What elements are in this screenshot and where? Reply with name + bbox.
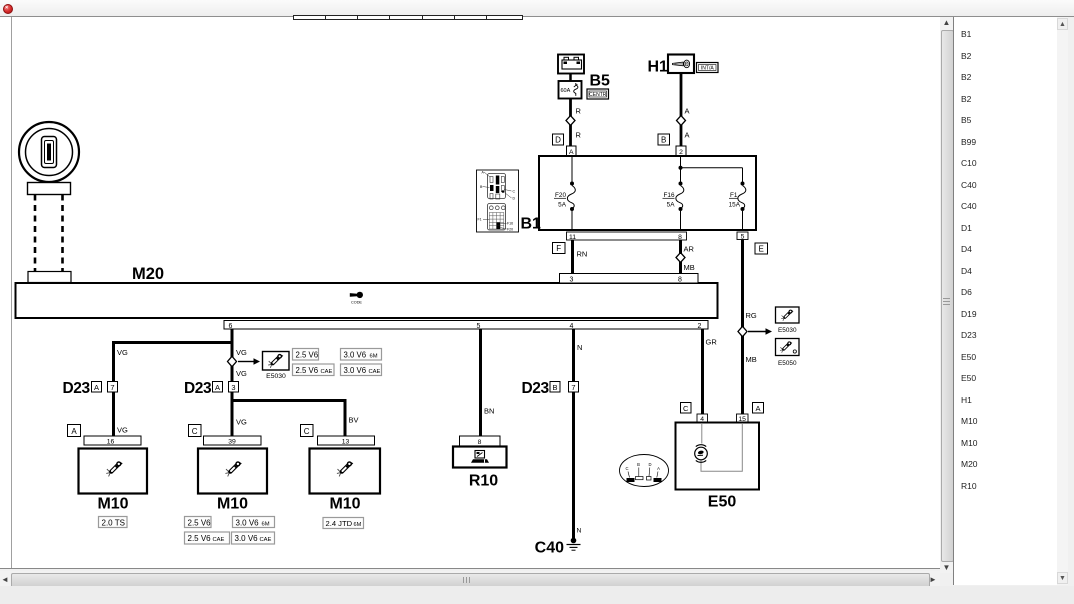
ignition key switch — [19, 122, 79, 195]
svg-text:3.0 V6: 3.0 V6 — [235, 534, 259, 543]
earth point E5030 (mid) — [263, 352, 290, 381]
svg-text:2.0 TS: 2.0 TS — [102, 518, 125, 527]
svg-text:AR: AR — [684, 245, 695, 254]
svg-text:CENTR: CENTR — [589, 92, 607, 98]
connector letter A (M10 left) — [68, 425, 81, 437]
svg-text:A: A — [569, 149, 574, 156]
wire BV branch to M10 13 — [232, 401, 345, 437]
svg-text:D: D — [555, 136, 561, 145]
variant tag 2.5 V6 — [293, 349, 319, 361]
svg-text:BV: BV — [349, 416, 359, 425]
wire R from fuse B5 to B1 pin A — [569, 99, 572, 147]
wire GR from M20 pin 2 to E50 — [701, 329, 704, 414]
variant tag 2.0 TS — [99, 517, 128, 528]
immobilizer aerial E50 — [676, 423, 760, 511]
svg-text:D: D — [513, 197, 516, 201]
connector letter D — [553, 134, 564, 145]
svg-text:2: 2 — [698, 323, 702, 330]
wire ignition switch to M20 (dashed) — [28, 195, 71, 283]
svg-text:N: N — [577, 528, 582, 535]
connector letter A — [92, 382, 102, 393]
M10 pin strip 16 — [84, 436, 141, 446]
svg-text:RN: RN — [577, 250, 588, 259]
svg-text:2.5 V6: 2.5 V6 — [188, 534, 212, 543]
svg-text:2.5 V6: 2.5 V6 — [296, 351, 319, 360]
svg-text:5A: 5A — [667, 202, 676, 209]
svg-text:VG: VG — [117, 348, 128, 357]
E50 connector face inset — [620, 455, 669, 487]
svg-text:7: 7 — [110, 383, 114, 392]
svg-text:6M: 6M — [262, 521, 270, 527]
wire A from H1 to B1 pin 2 — [680, 73, 683, 146]
svg-text:D23: D23 — [522, 380, 550, 397]
svg-text:A: A — [657, 466, 660, 471]
svg-text:16: 16 — [107, 439, 115, 446]
svg-text:VG: VG — [236, 348, 247, 357]
svg-text:2.4 JTD: 2.4 JTD — [326, 519, 353, 528]
splice diamond on wire R — [566, 116, 575, 126]
pin 7 box — [108, 382, 118, 393]
svg-text:MB: MB — [684, 263, 695, 272]
svg-text:E5030: E5030 — [778, 327, 797, 334]
splice diamond on wire AR/MB — [676, 253, 685, 263]
svg-text:B: B — [552, 383, 557, 392]
svg-text:D: D — [648, 462, 651, 467]
R10 pin strip 8 — [460, 436, 501, 446]
B1 location inset — [477, 170, 519, 232]
svg-text:11: 11 — [569, 234, 576, 241]
wire RN from B1 pin 11 to M20 pin 3 — [571, 240, 574, 274]
connector letter C (M10 right) — [301, 425, 314, 437]
svg-text:M10: M10 — [217, 496, 248, 513]
svg-text:A: A — [482, 171, 485, 175]
svg-text:5A: 5A — [558, 202, 567, 209]
middle vertical scrollbar — [940, 17, 953, 573]
variant tag 2.5 V6 — [185, 517, 212, 528]
injection ECU M10 (third) — [310, 449, 381, 513]
svg-text:5: 5 — [477, 323, 481, 330]
svg-text:6M: 6M — [354, 522, 362, 528]
svg-text:M10: M10 — [97, 496, 128, 513]
connector letter E — [755, 243, 768, 254]
pin 7 box — [569, 382, 579, 393]
connector letter F — [553, 243, 566, 254]
svg-text:E5030: E5030 — [266, 373, 286, 380]
svg-text:C: C — [683, 404, 689, 413]
svg-text:15A: 15A — [729, 202, 741, 209]
connector letter B — [658, 134, 670, 145]
svg-text:VG: VG — [117, 426, 128, 435]
svg-text:39: 39 — [228, 439, 236, 446]
svg-text:M20: M20 — [132, 265, 164, 283]
svg-text:H1: H1 — [648, 59, 669, 76]
svg-text:R: R — [576, 131, 582, 140]
B1 bottom connector strip pins 11,8 — [567, 232, 687, 241]
svg-text:B: B — [637, 462, 640, 467]
variant tag 3.0 V6 CAE — [341, 364, 382, 376]
connector letter C (M10 mid) — [189, 425, 202, 437]
svg-text:F16: F16 — [507, 222, 513, 226]
svg-text:F: F — [556, 244, 561, 253]
fuse B5 60A — [559, 81, 582, 99]
svg-text:3.0 V6: 3.0 V6 — [236, 518, 260, 527]
pin 4 box — [697, 414, 708, 423]
svg-text:INT/A: INT/A — [701, 66, 714, 72]
svg-text:C: C — [304, 427, 310, 436]
right list panel — [953, 17, 1057, 585]
CODE key icon inside M20 — [350, 292, 363, 305]
arrow to E5030 — [238, 358, 260, 365]
injection ECU M10 (second) — [198, 449, 267, 513]
svg-text:3.0 V6: 3.0 V6 — [344, 351, 367, 360]
svg-text:CAE: CAE — [260, 537, 272, 543]
B1 pin 5 box — [737, 232, 748, 241]
svg-text:13: 13 — [342, 439, 350, 446]
svg-text:GR: GR — [706, 338, 718, 347]
earth C40 — [567, 538, 581, 551]
svg-text:A: A — [94, 383, 99, 392]
variant tag 3.0 V6 6M — [233, 517, 275, 528]
splice diamond on wire A — [677, 116, 686, 126]
variant tag 3.0 V6 CAE — [232, 532, 275, 544]
svg-text:3: 3 — [570, 277, 574, 284]
svg-text:7: 7 — [571, 383, 575, 392]
variant tag 3.0 V6 6M — [341, 349, 382, 361]
svg-text:E50: E50 — [708, 494, 737, 511]
svg-text:8: 8 — [678, 277, 682, 284]
svg-text:60A: 60A — [561, 88, 571, 94]
fuse F16 5A — [663, 157, 684, 229]
svg-text:3.0 V6: 3.0 V6 — [344, 366, 367, 375]
wire VG from M20 pin 6 — [231, 329, 234, 436]
fuse F1 15A — [729, 168, 746, 229]
svg-text:BN: BN — [484, 407, 494, 416]
injection ECU M10 (first) — [79, 449, 148, 513]
pin A box — [567, 146, 577, 156]
diagnostic socket R10 — [453, 447, 507, 490]
arrow to E5030/E5050 — [748, 328, 772, 335]
variant tag 2.5 V6 CAE — [185, 532, 230, 544]
svg-text:A: A — [71, 427, 77, 436]
wire N from M20 pin 4 to earth C40 — [572, 329, 575, 539]
svg-text:A: A — [215, 383, 220, 392]
svg-text:RG: RG — [746, 311, 757, 320]
M10 pin strip 39 — [204, 436, 262, 446]
svg-text:CAE: CAE — [369, 369, 381, 375]
svg-text:VG: VG — [236, 369, 247, 378]
M10 pin strip 13 — [318, 436, 375, 446]
fuse F20 5A — [554, 157, 575, 229]
svg-text:MB: MB — [746, 355, 757, 364]
svg-text:3: 3 — [231, 383, 235, 392]
svg-text:4: 4 — [570, 323, 574, 330]
CENTR tag — [587, 89, 609, 99]
top toolbar — [0, 0, 1074, 17]
variant tag 2.4 JTD 6M — [323, 518, 364, 529]
connector letter A — [213, 382, 223, 393]
svg-text:8: 8 — [678, 234, 682, 241]
M20 bottom connector strip pins 6,5,4,2 — [224, 321, 708, 330]
horizontal scrollbar — [0, 571, 940, 588]
svg-text:5: 5 — [741, 234, 745, 241]
svg-text:M10: M10 — [329, 496, 360, 513]
INT/A tag — [697, 63, 719, 73]
wire AR/MB from B1 pin 8 to M20 pin 8 — [679, 240, 682, 274]
svg-text:B1: B1 — [521, 216, 542, 233]
ignition contact H1 — [668, 55, 694, 74]
svg-text:CAE: CAE — [321, 369, 333, 375]
inner page edge line — [11, 17, 12, 568]
svg-text:E: E — [759, 245, 764, 254]
earth point E5030 (right) — [776, 307, 800, 334]
svg-text:B5: B5 — [590, 73, 611, 90]
svg-text:B: B — [661, 136, 666, 145]
svg-text:6: 6 — [229, 323, 233, 330]
pin 3 box — [229, 382, 239, 393]
internal wire to F1 — [681, 167, 743, 169]
svg-text:F1: F1 — [478, 218, 482, 222]
bottom status bar — [0, 586, 1074, 604]
svg-text:N: N — [577, 343, 582, 352]
svg-text:A: A — [755, 404, 760, 413]
connector letter B — [550, 382, 560, 393]
wire VG branch to D23 pin A7 — [114, 341, 234, 436]
svg-text:R10: R10 — [469, 473, 498, 490]
battery B5 — [558, 55, 584, 74]
M20 top connector strip pins 3,8 — [560, 274, 699, 284]
svg-text:A: A — [685, 107, 690, 116]
pin 2 box — [676, 146, 686, 156]
svg-text:C: C — [513, 190, 516, 194]
svg-text:CAE: CAE — [213, 537, 225, 543]
right list scrollbar — [1057, 17, 1068, 585]
wire battery to fuse B5 — [569, 74, 572, 82]
red close button — [3, 4, 14, 15]
wire RG/MB from B1 pin 5 to E50 pin 15 — [741, 240, 744, 415]
fusebox B1 — [539, 156, 756, 230]
svg-text:F20: F20 — [507, 228, 513, 232]
splice diamond on wire VG — [228, 356, 237, 366]
svg-text:CODE: CODE — [351, 301, 362, 305]
connector letter C (E50) — [681, 403, 692, 414]
svg-text:2.5 V6: 2.5 V6 — [188, 518, 212, 527]
svg-text:A: A — [685, 131, 690, 140]
svg-text:C: C — [192, 427, 198, 436]
svg-text:2.5 V6: 2.5 V6 — [296, 366, 319, 375]
svg-text:C40: C40 — [535, 540, 564, 557]
svg-text:8: 8 — [478, 439, 482, 446]
svg-text:D23: D23 — [63, 380, 91, 397]
splice diamond on wire RG/MB — [738, 326, 747, 336]
svg-text:VG: VG — [236, 418, 247, 427]
svg-text:6M: 6M — [370, 354, 378, 360]
page tabs strip — [293, 15, 326, 20]
svg-text:C: C — [625, 466, 628, 471]
body computer M20 — [16, 265, 718, 318]
connector letter A (E50) — [753, 403, 764, 414]
svg-text:R: R — [576, 107, 582, 116]
svg-text:B: B — [480, 185, 483, 189]
svg-text:E5050: E5050 — [778, 360, 797, 367]
wire BN from M20 pin 5 to R10 — [479, 329, 482, 436]
variant tag 2.5 V6 CAE — [293, 364, 335, 376]
pin 15 box — [737, 414, 749, 423]
earth point E5050 (right) — [776, 339, 800, 368]
canvas white area — [0, 17, 940, 569]
svg-text:D23: D23 — [184, 380, 212, 397]
svg-text:2: 2 — [679, 149, 683, 156]
